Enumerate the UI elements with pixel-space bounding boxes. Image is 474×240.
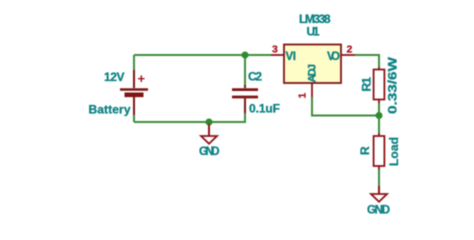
svg-text:U1: U1	[307, 25, 320, 39]
wire battery left vertical bottom	[133, 113, 135, 122]
wire VO pin2 to R1 top	[355, 55, 379, 67]
ground right	[371, 186, 387, 202]
svg-text:12V: 12V	[104, 70, 125, 84]
svg-text:R: R	[358, 146, 372, 155]
capacitor C2	[232, 85, 258, 113]
svg-text:C2: C2	[248, 70, 262, 84]
node junction R1 bottom	[376, 112, 383, 119]
svg-text:+: +	[138, 71, 146, 86]
svg-text:Battery: Battery	[89, 103, 131, 117]
svg-text:2: 2	[347, 44, 353, 56]
svg-text:GND: GND	[367, 205, 390, 217]
wire R1 bottom to junction	[378, 102, 380, 116]
svg-text:R1: R1	[360, 77, 374, 92]
resistor R1	[374, 67, 385, 103]
svg-text:0.33/6W: 0.33/6W	[386, 56, 400, 114]
wire ADJ to junction	[312, 97, 379, 116]
ground middle	[201, 124, 217, 144]
node junction bottom GND tap	[206, 119, 213, 126]
pin 3 VI	[271, 54, 284, 56]
pin 1 ADJ	[311, 83, 313, 97]
wire bottom from battery to C2	[134, 121, 246, 123]
op-amp U1 LM338 regulator body	[284, 45, 341, 84]
wire battery left vertical top	[133, 55, 135, 73]
wire top from battery to C2 junction to pin3	[134, 54, 271, 56]
svg-text:GND: GND	[199, 146, 220, 158]
svg-text:VI: VI	[286, 51, 297, 63]
svg-text:3: 3	[272, 44, 278, 56]
wire junction to R load	[378, 116, 380, 134]
svg-text:1: 1	[297, 93, 309, 99]
svg-text:VO: VO	[327, 51, 340, 63]
battery BT1 12V	[120, 70, 148, 115]
svg-text:Load: Load	[387, 137, 401, 166]
wire C2 top vertical	[244, 55, 246, 85]
node junction above C2	[242, 52, 249, 59]
pin 2 VO	[341, 54, 355, 56]
wire C2 bottom vertical	[244, 112, 246, 122]
svg-text:ADJ: ADJ	[307, 64, 319, 83]
wire R load bottom to GND	[378, 169, 380, 187]
resistor R Load	[374, 133, 385, 170]
svg-text:0.1uF: 0.1uF	[249, 102, 280, 116]
